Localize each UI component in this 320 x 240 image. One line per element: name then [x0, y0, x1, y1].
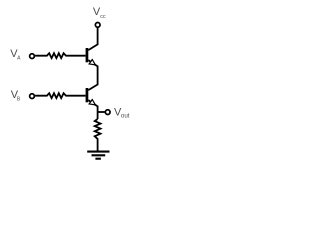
- resistor R3 vertical: [95, 119, 101, 151]
- svg-text:cc: cc: [100, 14, 106, 20]
- node V_out terminal circle: [105, 110, 110, 115]
- wire Q1 emitter to Q2 collector: [88, 60, 97, 90]
- svg-text:A: A: [17, 56, 21, 62]
- wire V_A input with resistor R1: [35, 53, 86, 58]
- wire Vcc rail to Q1 collector: [88, 28, 97, 50]
- label V_out: [114, 107, 130, 120]
- node V_B terminal circle: [30, 94, 35, 99]
- wire V_B input with resistor R2: [35, 93, 86, 98]
- transistor Q2 base bar: [86, 88, 89, 102]
- node Vcc terminal circle: [95, 23, 100, 28]
- transistor Q1 emitter arrow: [89, 59, 95, 64]
- wire V_out stub: [98, 111, 105, 113]
- svg-text:B: B: [17, 96, 21, 102]
- node V_A terminal circle: [30, 54, 35, 59]
- label V_B: [11, 89, 21, 102]
- label Vcc: [93, 6, 106, 20]
- label V_A: [10, 48, 21, 62]
- wire Q2 emitter down to resistor R3: [88, 100, 97, 119]
- transistor Q2 emitter arrow: [89, 99, 95, 104]
- transistor Q1 base bar: [86, 48, 89, 62]
- ground: [87, 152, 109, 159]
- svg-text:out: out: [121, 113, 130, 120]
